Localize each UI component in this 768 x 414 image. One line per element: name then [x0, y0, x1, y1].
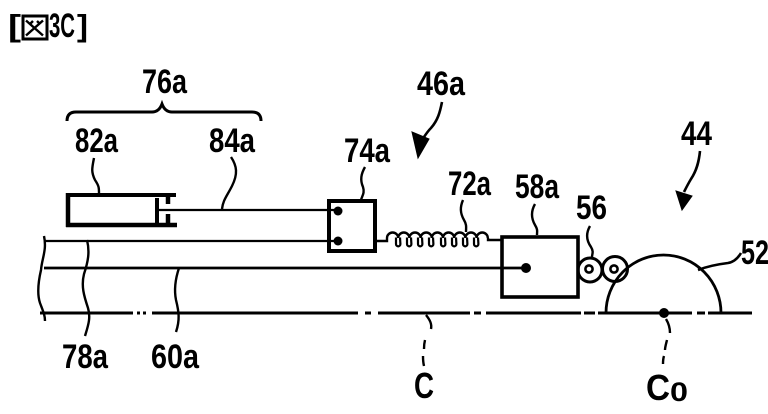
leader 84a [222, 157, 236, 209]
svg-text:72a: 72a [448, 165, 492, 203]
node C0 dot [659, 308, 669, 318]
svg-text:82a: 82a [75, 122, 119, 160]
svg-text:78a: 78a [62, 338, 109, 376]
terminal dot in 58a [521, 263, 531, 273]
box 74a [329, 201, 375, 251]
figure title [図3C] [8, 7, 88, 45]
leader 82a [92, 158, 99, 193]
svg-text:56: 56 [576, 189, 607, 227]
terminal dot lower in 74a [334, 237, 343, 246]
svg-text:C: C [414, 365, 434, 406]
svg-text:[: [ [8, 8, 21, 43]
wire at y268 [44, 267, 524, 270]
svg-text:C: C [646, 367, 670, 408]
svg-text:52: 52 [741, 234, 768, 272]
svg-text:58a: 58a [515, 168, 560, 206]
svg-text:44: 44 [681, 115, 712, 153]
leader 56 [587, 226, 593, 257]
wire at y241 [44, 240, 336, 242]
leader 74a [361, 167, 365, 200]
svg-text:60a: 60a [151, 338, 200, 376]
box 58a [502, 237, 578, 297]
dome 52 [606, 255, 721, 313]
left break wavy line [38, 236, 45, 321]
chain link 56 [578, 257, 628, 283]
svg-text:]: ] [77, 8, 88, 43]
leader 78a wavy [83, 240, 89, 336]
leader 72a [461, 200, 466, 232]
svg-text:3C: 3C [49, 7, 75, 45]
leader 52 [698, 253, 741, 270]
terminal dot upper in 74a [334, 207, 343, 216]
svg-text:76a: 76a [142, 63, 188, 101]
svg-text:46a: 46a [417, 65, 466, 103]
brace for 76a [67, 104, 261, 121]
svg-text:84a: 84a [209, 122, 256, 160]
leader 60a wavy [175, 268, 179, 332]
leader 58a [532, 204, 537, 235]
svg-text:0: 0 [670, 377, 688, 407]
leader C0 dashed wavy [663, 319, 670, 364]
leader C dashed wavy [423, 315, 431, 366]
baseline with dash-dot (centerline C) [40, 312, 752, 315]
arrow 46a [424, 102, 442, 137]
piston 84a plate [155, 198, 159, 223]
svg-text:74a: 74a [344, 132, 391, 170]
arrow 44 [684, 151, 700, 192]
piston rod wire [159, 209, 335, 211]
cylinder 82a (actuator body) [66, 193, 177, 227]
coil 72a [375, 233, 501, 247]
